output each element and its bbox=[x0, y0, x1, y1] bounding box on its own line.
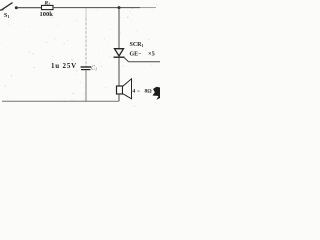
wire top left (switch to resistor) bbox=[17, 7, 42, 9]
wire capacitor top lead (faint) bbox=[85, 8, 87, 18]
SCR1 thyristor bbox=[114, 49, 125, 58]
wire top right (resistor to right end) bbox=[53, 7, 140, 9]
node junction at SCR anode branch bbox=[118, 6, 121, 9]
svg-text:4: 4 bbox=[133, 89, 136, 95]
partial character at right edge bbox=[153, 87, 161, 100]
wire capacitor bottom lead bbox=[85, 70, 87, 101]
svg-text:R1: R1 bbox=[44, 1, 51, 7]
svg-text:C1: C1 bbox=[91, 66, 97, 72]
speaker LS1 bbox=[117, 79, 132, 99]
resistor R1 bbox=[42, 5, 54, 9]
wire SCR cathode to speaker bbox=[118, 57, 120, 86]
capacitor C1 bbox=[81, 67, 92, 70]
svg-text:S1: S1 bbox=[4, 13, 9, 19]
svg-text:~: ~ bbox=[137, 89, 140, 95]
wire SCR anode drop bbox=[118, 8, 120, 49]
svg-text:SCR1: SCR1 bbox=[130, 42, 144, 48]
svg-text:100k: 100k bbox=[40, 11, 54, 18]
paper speckle (decorative) bbox=[5, 4, 158, 106]
switch S1 bbox=[0, 3, 18, 11]
svg-text:1u 25V: 1u 25V bbox=[51, 62, 77, 70]
svg-text:×5: ×5 bbox=[148, 51, 155, 58]
wire speaker to bottom rail bbox=[118, 94, 120, 101]
svg-text:GE−: GE− bbox=[130, 52, 143, 58]
wire bottom rail bbox=[2, 100, 119, 102]
svg-text:8Ω: 8Ω bbox=[145, 89, 153, 95]
wire SCR gate (diagonal then horizontal to right edge) bbox=[124, 58, 160, 62]
